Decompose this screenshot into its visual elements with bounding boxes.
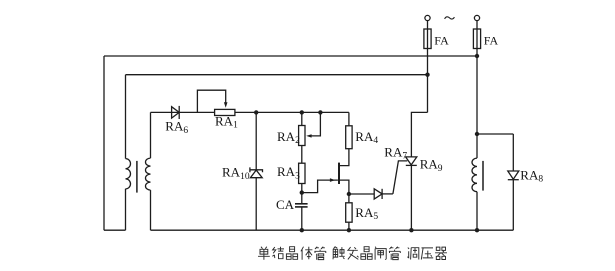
node fuse1 / inner top	[425, 73, 429, 77]
node RA5 bottom	[347, 228, 351, 232]
transformer T core	[136, 161, 138, 193]
node RA2 top	[300, 110, 304, 114]
fuse FA1 lead	[427, 21, 429, 113]
UJT emitter arrowhead	[330, 178, 335, 182]
title 单结晶体管触发晶闸管调压器 (hand-drawn strokes)	[258, 247, 447, 260]
AC tilde	[445, 17, 455, 19]
svg-text:FA: FA	[434, 33, 449, 47]
wire primary top lead	[125, 75, 127, 159]
wire UJT emitter	[302, 180, 338, 193]
wire RA8 lead top	[512, 134, 514, 171]
svg-text:RA5: RA5	[355, 205, 378, 222]
wire RA2-RA3	[301, 146, 303, 164]
wire RA3 to CA	[301, 184, 303, 204]
terminal right	[474, 15, 479, 20]
svg-text:CA: CA	[276, 197, 295, 212]
resistor RA2 wiper arrowhead	[306, 134, 311, 137]
fuse FA2 body	[473, 29, 480, 49]
resistor RA5 body	[346, 203, 352, 222]
resistor RA3 body	[299, 163, 305, 183]
node CA-RA3	[300, 190, 304, 194]
resistor RA2 branch wire top	[301, 112, 303, 125]
diode RA8	[508, 171, 519, 179]
node load top	[475, 132, 479, 136]
resistor RA4 body	[346, 126, 352, 149]
wire RA8 lead bottom	[512, 180, 514, 231]
capacitor CA plates	[295, 203, 308, 205]
UJT V1 base bar	[338, 163, 340, 184]
zener RA10 triangle	[250, 170, 262, 178]
thyristor RA9 triangle	[406, 157, 417, 165]
zener RA10 cathode bar	[250, 167, 263, 172]
svg-text:RA10: RA10	[222, 165, 250, 182]
resistor RA2 body	[299, 126, 305, 146]
potentiometer RA1 arrowhead	[224, 102, 228, 108]
wire outer left	[103, 56, 105, 230]
wire B1 node to diode RA7	[349, 193, 374, 195]
node RA10 top	[254, 110, 258, 114]
svg-text:RA6: RA6	[165, 119, 188, 136]
svg-text:RA3: RA3	[277, 164, 300, 181]
inductor L core	[482, 161, 484, 191]
thyristor RA9 cathode bar	[406, 164, 417, 166]
wire primary bottom lead	[125, 189, 127, 230]
svg-text:RA4: RA4	[355, 129, 378, 146]
diode RA6	[172, 107, 180, 118]
wire outer bottom-left	[104, 229, 126, 231]
thyristor RA9 gate	[393, 161, 407, 194]
wire fuse jog to thyristor	[411, 112, 427, 156]
svg-text:RA7: RA7	[384, 144, 407, 161]
transformer T secondary winding	[146, 158, 151, 190]
wire control top	[151, 111, 349, 113]
wire inner top	[126, 74, 428, 76]
wire UJT B1	[340, 180, 349, 194]
resistor RA2 wiper	[311, 112, 320, 135]
fuse FA1 body	[424, 29, 431, 49]
wire secondary bottom lead	[150, 190, 152, 230]
potentiometer RA1 body	[215, 109, 235, 115]
resistor RA4 lead	[348, 112, 350, 125]
wire CA to bottom	[301, 207, 303, 230]
node thyristor bottom	[409, 228, 413, 232]
node B1	[347, 192, 351, 196]
resistor RA5 leads	[348, 194, 350, 230]
terminal left	[425, 15, 430, 20]
wire thyristor cathode down	[410, 165, 412, 230]
svg-text:RA2: RA2	[277, 129, 300, 146]
fuse FA2 lead	[476, 21, 478, 159]
wire outer top	[104, 55, 477, 57]
svg-text:FA: FA	[484, 33, 499, 47]
node fuse2 / outer top	[475, 54, 479, 58]
wire RA7 to gate	[382, 193, 393, 195]
wire secondary top lead	[150, 112, 152, 158]
potentiometer RA1 wiper loop	[197, 90, 225, 112]
wire load branch top	[477, 133, 513, 135]
wire UJT B2	[340, 149, 349, 166]
node CA bottom	[300, 228, 304, 232]
svg-text:RA9: RA9	[420, 157, 443, 174]
svg-text:RA8: RA8	[520, 167, 543, 184]
node wiper top	[318, 110, 322, 114]
transformer T primary winding	[126, 159, 131, 189]
wire inductor bottom lead	[476, 192, 478, 231]
zener RA10 branch wire	[255, 112, 257, 230]
diode RA7	[374, 189, 382, 199]
wire control bottom	[151, 229, 514, 231]
inductor L winding	[472, 158, 477, 192]
node load bottom	[475, 228, 479, 232]
